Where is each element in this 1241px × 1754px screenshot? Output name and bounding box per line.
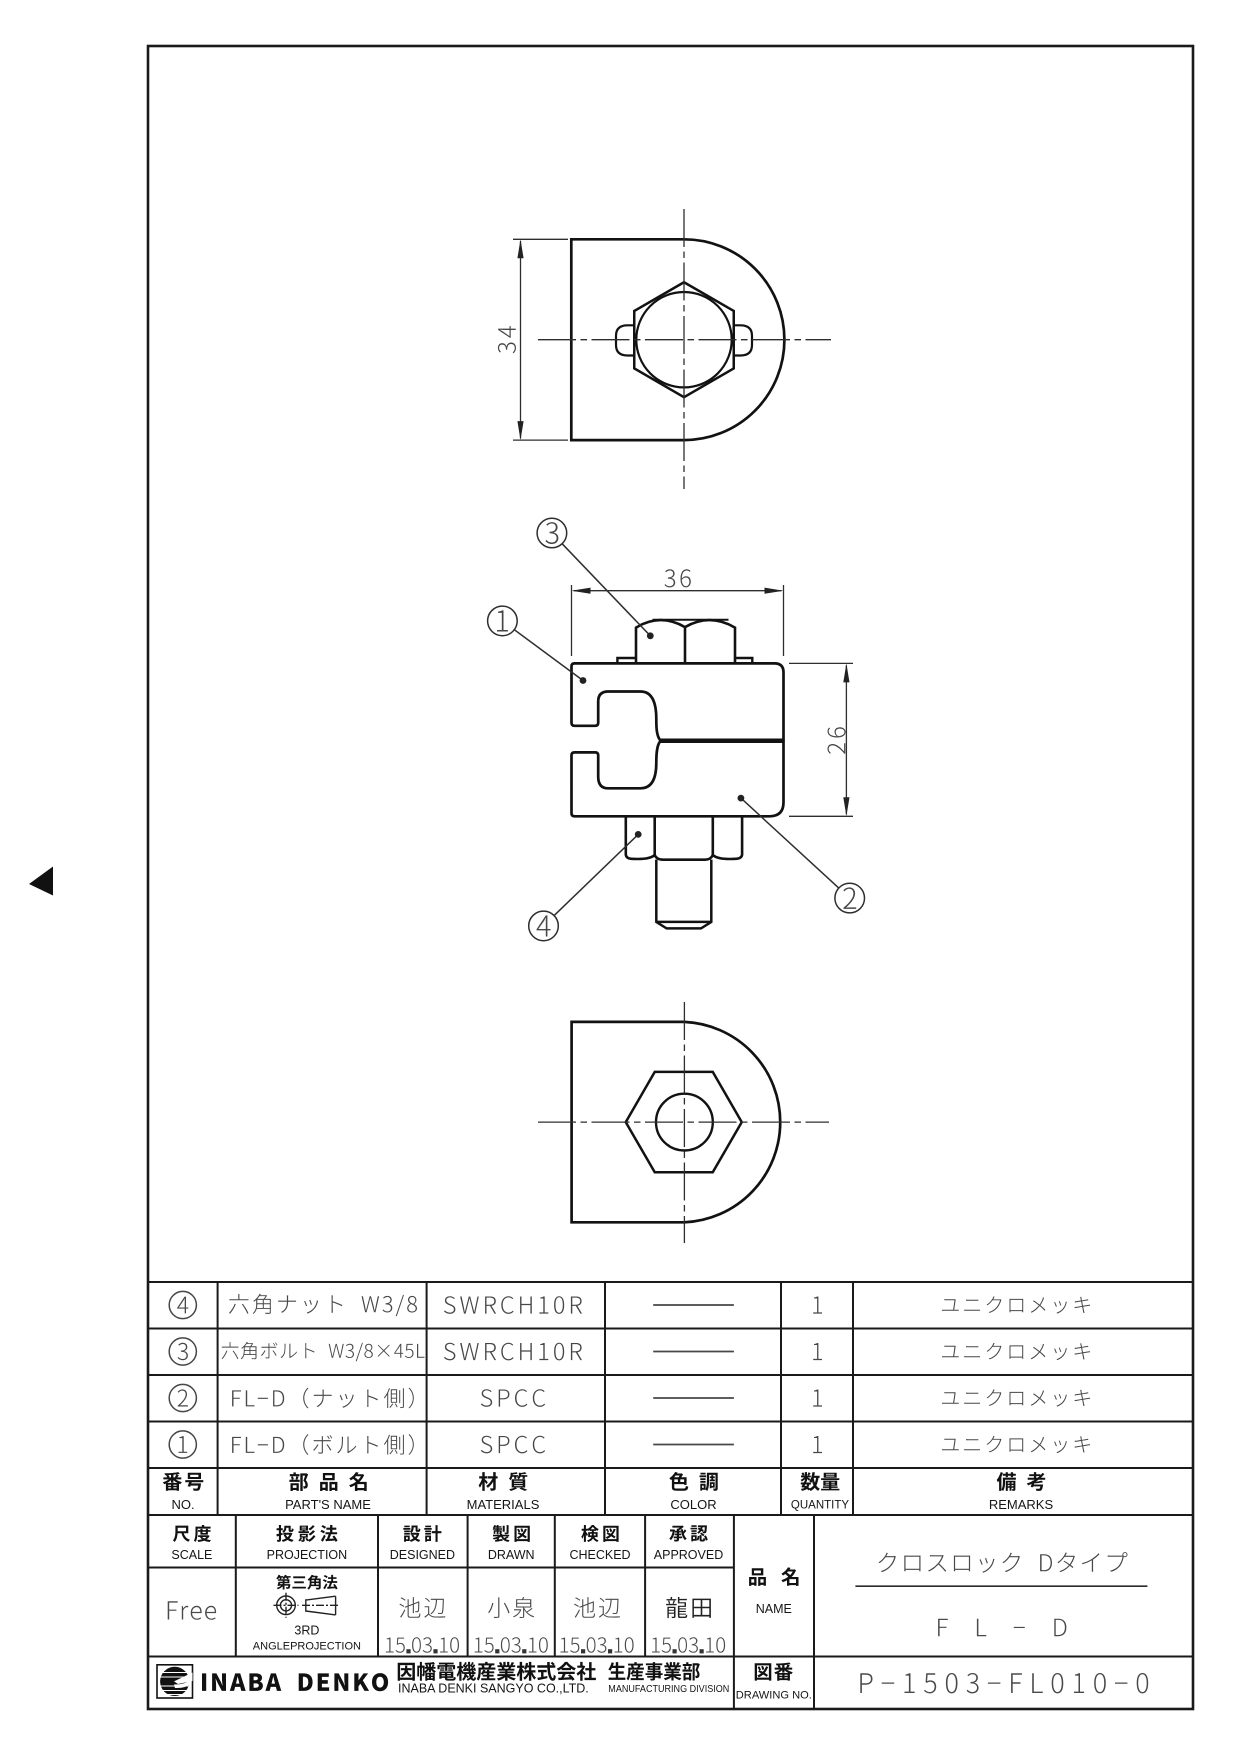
dimension 26: dimension line with arrowheads	[845, 665, 847, 814]
table row 2: circled item number 2	[169, 1384, 196, 1411]
front view: lower clamp half (nut side, part 2)	[572, 742, 784, 817]
title label PROJECTION	[267, 1525, 348, 1562]
division romanized	[608, 1683, 729, 1695]
dimension 36: value text	[665, 569, 691, 587]
table row 4: circled item number 4	[169, 1291, 196, 1318]
approver name 4 龍田	[666, 1597, 711, 1618]
svg-text:ANGLEPROJECTION: ANGLEPROJECTION	[253, 1640, 361, 1652]
INABA DENKO logo emblem	[157, 1665, 193, 1698]
table row 1: circled item number 1	[169, 1431, 196, 1458]
scale value Free	[168, 1601, 216, 1620]
title block grid	[148, 1515, 1193, 1709]
name cell label 品名/NAME	[749, 1567, 798, 1616]
bottom view: horizontal centerline	[538, 1121, 829, 1123]
balloon 3 with leader to bolt head	[537, 518, 654, 639]
front view: flange washer under bolt head	[617, 658, 752, 663]
top view: bolt circle inside nut	[636, 292, 731, 387]
table header column NO.	[163, 1472, 204, 1512]
dimension 26: value text	[828, 727, 846, 754]
table row 3: circled item number 3	[169, 1338, 196, 1365]
table row 2: remarks plating	[942, 1389, 1090, 1406]
drawing frame border	[148, 46, 1193, 1709]
left margin fold arrow	[29, 867, 53, 896]
top view: right ear tab	[734, 325, 752, 355]
approver name 1 池辺	[399, 1597, 445, 1618]
table row 4: quantity 1	[813, 1297, 822, 1314]
model FL-D	[938, 1619, 1066, 1637]
title label APPROVED	[654, 1525, 723, 1562]
table row 2: part name FL−D（ナット側）	[232, 1388, 414, 1409]
front view: hex nut below body (part 4)	[626, 816, 742, 859]
balloon 4 with leader to nut	[529, 831, 642, 941]
division 生産事業部	[608, 1662, 700, 1680]
date 15.03.10 col 4	[652, 1637, 725, 1653]
company name romanized	[398, 1681, 589, 1695]
top view: horizontal centerline	[538, 339, 831, 341]
svg-text:NAME: NAME	[756, 1602, 792, 1616]
dimension 36: dimension line with arrowheads	[574, 590, 782, 592]
balloon 2 with leader to lower half	[738, 795, 865, 913]
svg-text:DRAWN: DRAWN	[488, 1548, 535, 1562]
title label DESIGNED	[390, 1525, 455, 1562]
approver name 3 池辺	[574, 1597, 620, 1618]
top view: hex nut (across corners vertical)	[634, 282, 734, 397]
title label DRAWN	[488, 1525, 535, 1562]
table row 1: color dash	[653, 1444, 734, 1446]
date 15.03.10 col 2	[475, 1637, 548, 1653]
table row 3: quantity 1	[813, 1343, 822, 1360]
table row 2: quantity 1	[813, 1390, 822, 1407]
front view: hex bolt head (part 3)	[636, 620, 735, 663]
table header column COLOR	[669, 1472, 717, 1512]
svg-text:APPROVED: APPROVED	[654, 1548, 723, 1562]
table row 1: material SPCC	[481, 1436, 545, 1454]
bottom view: bolt hole circle	[656, 1094, 713, 1151]
svg-text:REMARKS: REMARKS	[989, 1497, 1054, 1512]
bottom view: vertical centerline	[683, 1002, 685, 1243]
svg-text:PROJECTION: PROJECTION	[267, 1548, 348, 1562]
table row 3: part name 六角ボルト W3/8×45L	[222, 1342, 425, 1361]
svg-text:QUANTITY: QUANTITY	[791, 1500, 849, 1512]
table row 3: material SWRCH10R	[444, 1343, 582, 1361]
parts table grid	[148, 1282, 1193, 1515]
company name 因幡電機産業株式会社	[398, 1662, 596, 1681]
bottom view: hex nut (across flats vertical)	[626, 1072, 742, 1172]
table row 1: quantity 1	[813, 1436, 822, 1453]
dimension 36: extension lines	[572, 585, 784, 656]
dimension 26: extension lines	[789, 663, 853, 816]
third angle projection symbol	[274, 1593, 340, 1618]
table row 2: material SPCC	[481, 1389, 545, 1407]
svg-text:PART'S NAME: PART'S NAME	[285, 1497, 371, 1512]
front view: upper clamp half (bolt side, part 1)	[572, 663, 784, 740]
dimension 34: value text	[498, 326, 516, 353]
balloon 1 with leader to upper half	[488, 606, 587, 684]
table row 4: material SWRCH10R	[444, 1296, 582, 1314]
product name underline	[855, 1585, 1147, 1587]
svg-text:MANUFACTURING DIVISION: MANUFACTURING DIVISION	[608, 1683, 729, 1695]
svg-text:COLOR: COLOR	[670, 1497, 716, 1512]
table row 2: color dash	[653, 1397, 734, 1399]
top view: left ear tab	[616, 325, 634, 355]
table header column REMARKS	[989, 1472, 1054, 1512]
svg-text:DESIGNED: DESIGNED	[390, 1548, 455, 1562]
date 15.03.10 col 3	[561, 1637, 634, 1653]
dimension 34: dimension line with arrowheads	[520, 241, 522, 439]
svg-text:SCALE: SCALE	[171, 1548, 212, 1562]
svg-text:MATERIALS: MATERIALS	[467, 1497, 540, 1512]
title label CHECKED	[569, 1525, 630, 1562]
product name クロスロック Dタイプ	[879, 1552, 1128, 1573]
approver name 2 小泉	[488, 1597, 534, 1618]
table row 4: part name 六角ナット W3/8	[229, 1294, 417, 1316]
3RD label	[253, 1623, 361, 1652]
table row 1: remarks plating	[942, 1436, 1090, 1453]
dimension 34: extension lines	[513, 239, 568, 440]
svg-text:CHECKED: CHECKED	[569, 1548, 630, 1562]
front view: bolt shank with chamfered tip	[656, 860, 711, 929]
svg-text:NO.: NO.	[172, 1497, 195, 1512]
table header column PART'S NAME	[285, 1472, 371, 1512]
INABA DENKO logotype	[202, 1673, 388, 1691]
drawing number cell label 図番/DRAWING NO.	[736, 1663, 812, 1702]
table row 3: color dash	[653, 1351, 734, 1353]
date 15.03.10 col 1	[386, 1637, 459, 1653]
drawing number P-1503-FL010-0	[860, 1673, 1148, 1693]
table row 4: color dash	[653, 1304, 734, 1306]
table row 4: remarks plating	[942, 1296, 1090, 1313]
svg-text:INABA DENKI SANGYO CO.,LTD.: INABA DENKI SANGYO CO.,LTD.	[398, 1681, 589, 1695]
table header column MATERIALS	[467, 1472, 540, 1512]
table header column QUANTITY	[791, 1472, 849, 1512]
top view: D-shaped body outline	[571, 239, 784, 440]
bottom view: D-shaped body outline	[572, 1022, 781, 1222]
table row 1: part name FL−D（ボルト側）	[232, 1434, 414, 1455]
svg-text:DRAWING NO.: DRAWING NO.	[736, 1689, 812, 1701]
table row 3: remarks plating	[942, 1343, 1090, 1360]
svg-text:3RD: 3RD	[294, 1623, 319, 1637]
top view: vertical centerline	[683, 209, 685, 489]
title label SCALE	[171, 1525, 212, 1562]
third angle projection label	[276, 1575, 337, 1590]
